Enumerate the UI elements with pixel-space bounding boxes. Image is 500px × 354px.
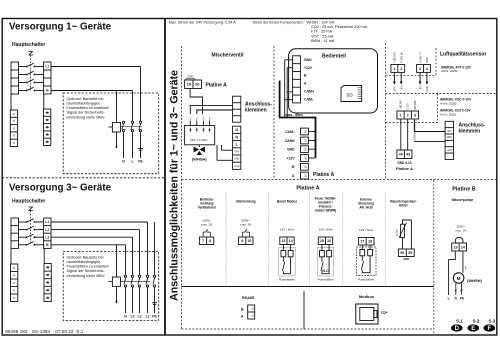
svg-text:GND: GND: [425, 86, 429, 92]
svg-text:max. 2A: max. 2A: [201, 223, 212, 227]
svg-text:GND: GND: [403, 257, 409, 261]
svg-text:ϑ KTY: ϑ KTY: [396, 229, 399, 236]
svg-text:55: 55: [408, 251, 412, 255]
svg-text:raumluftabhängigen: raumluftabhängigen: [67, 102, 101, 106]
svg-text:S.1: S.1: [456, 319, 463, 324]
svg-text:SS-1384: SS-1384: [32, 329, 51, 334]
svg-text:26: 26: [303, 130, 307, 134]
svg-text:S.3: S.3: [488, 319, 495, 324]
svg-text:10: 10: [247, 239, 251, 243]
svg-text:E: E: [471, 326, 475, 332]
svg-text:FTF : 25 mA: FTF : 25 mA: [311, 30, 333, 34]
svg-text:Platine B: Platine B: [452, 187, 476, 193]
svg-text:S.2: S.2: [472, 319, 479, 324]
svg-text:Bedienteil: Bedienteil: [322, 54, 347, 60]
svg-text:Anschlussmöglichkeiten für 1~: Anschlussmöglichkeiten für 1~ und 3~ Ger…: [169, 70, 181, 301]
svg-text:L1: L1: [45, 220, 49, 224]
svg-text:Max. Strom der 24V Versorgung:: Max. Strom der 24V Versorgung: 0,54 A: [169, 20, 237, 24]
svg-text:(WHSH): (WHSH): [192, 157, 208, 162]
svg-text:klemmen: klemmen: [459, 129, 481, 135]
svg-text:Boost Modus: Boost Modus: [277, 200, 297, 204]
svg-text:Platine A: Platine A: [206, 83, 228, 89]
svg-text:15: 15: [320, 239, 324, 243]
svg-text:56: 56: [400, 251, 404, 255]
svg-text:Mischerventil: Mischerventil: [212, 53, 245, 59]
svg-text:1: 1: [399, 113, 401, 117]
svg-text:+12V: +12V: [286, 156, 295, 160]
svg-text:Hauptschalter: Hauptschalter: [12, 42, 45, 48]
svg-text:fühler: fühler: [399, 204, 409, 208]
svg-text:WHSH : 104 mA: WHSH : 104 mA: [307, 20, 335, 24]
svg-text:13: 13: [453, 245, 457, 249]
svg-text:raumluftabhängigen: raumluftabhängigen: [67, 260, 101, 264]
svg-text:GND: GND: [187, 75, 193, 79]
svg-text:7: 7: [202, 239, 204, 243]
svg-text:2: 2: [407, 113, 409, 117]
svg-text:RS485: RS485: [242, 295, 255, 300]
svg-text:24V-: 24V-: [393, 86, 397, 91]
svg-text:Strom der Einzel-Komponenten:: Strom der Einzel-Komponenten:: [253, 20, 304, 24]
svg-text:L: L: [448, 296, 450, 300]
svg-text:8: 8: [209, 239, 211, 243]
svg-text:Störmeldung: Störmeldung: [236, 200, 256, 204]
svg-text:L: L: [465, 265, 467, 269]
svg-text:Ventilatoren: Ventilatoren: [198, 206, 216, 210]
svg-text:CANH: CANH: [304, 89, 314, 93]
svg-text:BWM : 41 mA: BWM : 41 mA: [311, 39, 335, 43]
svg-text:+12V: +12V: [304, 66, 313, 70]
svg-text:UB GND: UB GND: [415, 100, 417, 109]
svg-text:L1: L1: [146, 314, 150, 318]
svg-text:Versorgung 1~ Geräte: Versorgung 1~ Geräte: [9, 22, 112, 33]
svg-text:Signal der Sicherheits-: Signal der Sicherheits-: [67, 111, 106, 115]
svg-text:Feuerstätten zu erstellen!: Feuerstätten zu erstellen!: [67, 265, 110, 269]
svg-text:20: 20: [195, 82, 200, 87]
svg-text:0-10V: 0-10V: [408, 103, 410, 110]
svg-text:Feuerstätten zu erstellen!: Feuerstätten zu erstellen!: [67, 106, 110, 110]
svg-text:3: 3: [414, 113, 416, 117]
svg-text:S.1: S.1: [76, 329, 83, 334]
svg-text:Wasserpumpe: Wasserpumpe: [452, 198, 474, 202]
svg-text:einrichtung siehe MBV.: einrichtung siehe MBV.: [67, 274, 106, 278]
svg-text:Platine A: Platine A: [396, 166, 413, 171]
svg-text:Art.Nr. 20252: Art.Nr. 20252: [441, 69, 458, 73]
svg-text:GND: GND: [304, 58, 312, 62]
svg-text:GND: GND: [287, 148, 295, 152]
svg-text:N: N: [235, 128, 238, 132]
svg-text:+UB 24V: +UB 24V: [393, 52, 397, 63]
svg-text:N.C.: N.C.: [322, 269, 329, 273]
svg-text:SD: SD: [346, 93, 353, 98]
svg-text:16: 16: [327, 239, 331, 243]
svg-text:12V / 5mA: 12V / 5mA: [359, 228, 373, 232]
svg-text:D: D: [455, 326, 460, 332]
svg-text:Potentialfrei: Potentialfrei: [318, 278, 334, 282]
svg-text:Hauptschalter: Hauptschalter: [12, 199, 45, 205]
svg-text:28: 28: [303, 148, 307, 152]
svg-text:L1: L1: [45, 65, 49, 69]
svg-text:Optional: Bauseits bei: Optional: Bauseits bei: [67, 97, 104, 101]
svg-text:max. 2A: max. 2A: [240, 223, 251, 227]
svg-text:N: N: [235, 135, 238, 139]
svg-text:07.03.22: 07.03.22: [55, 329, 74, 334]
svg-text:GND: GND: [234, 158, 240, 161]
svg-text:19: 19: [187, 82, 192, 87]
svg-text:AN :AUS: AN :AUS: [359, 206, 372, 210]
svg-text:43: 43: [406, 153, 410, 157]
svg-text:Potentialfrei: Potentialfrei: [358, 278, 374, 282]
svg-text:Modbus: Modbus: [359, 294, 375, 299]
svg-text:klemmen: klemmen: [245, 108, 267, 114]
svg-text:13: 13: [281, 239, 285, 243]
svg-text:Signal der Sicherheits-: Signal der Sicherheits-: [67, 269, 106, 273]
svg-text:Art.Nr. 20253: Art.Nr. 20253: [440, 102, 457, 106]
svg-text:L3: L3: [131, 314, 135, 318]
svg-text:3: 3: [419, 67, 421, 71]
svg-text:24: 24: [303, 174, 307, 178]
svg-text:29: 29: [303, 156, 307, 160]
svg-text:CANL: CANL: [285, 130, 294, 134]
svg-text:12V / 5mA: 12V / 5mA: [318, 228, 332, 232]
svg-text:9: 9: [241, 239, 243, 243]
svg-text:TCP: TCP: [381, 311, 389, 315]
svg-text:CO2 : 25 mA, Peakstrom 200 mA: CO2 : 25 mA, Peakstrom 200 mA: [311, 25, 368, 29]
svg-text:0-10V 1k: 0-10V 1k: [400, 52, 404, 63]
svg-text:27: 27: [303, 139, 307, 143]
svg-text:max. 40m: max. 40m: [285, 112, 304, 117]
svg-text:24V~/ 0-10V~: 24V~/ 0-10V~: [190, 138, 209, 142]
svg-text:melder (BWM): melder (BWM): [315, 209, 336, 213]
svg-text:-24V: -24V: [234, 150, 239, 153]
svg-text:L2: L2: [138, 314, 142, 318]
svg-text:+12V: +12V: [447, 150, 453, 152]
svg-text:Optional: Bauseits bei: Optional: Bauseits bei: [67, 255, 104, 259]
svg-text:L2: L2: [45, 228, 49, 232]
svg-text:L3: L3: [45, 235, 49, 239]
svg-text:Art.Nr. 20251: Art.Nr. 20251: [440, 113, 457, 117]
svg-text:Platine A: Platine A: [296, 186, 319, 192]
svg-text:M: M: [457, 276, 461, 281]
svg-text:GND: GND: [447, 137, 452, 139]
svg-text:einrichtung siehe MBV.: einrichtung siehe MBV.: [67, 115, 106, 119]
svg-text:17: 17: [360, 240, 364, 244]
svg-text:+UB 24V: +UB 24V: [401, 100, 403, 110]
svg-text:12V / 5mA: 12V / 5mA: [280, 228, 294, 232]
svg-text:25: 25: [303, 165, 307, 169]
svg-text:Potentialfrei: Potentialfrei: [279, 278, 295, 282]
svg-text:L: L: [131, 160, 133, 164]
svg-text:CANL: CANL: [304, 97, 313, 101]
svg-text:CANH: CANH: [285, 139, 295, 143]
svg-text:18: 18: [368, 240, 372, 244]
svg-text:F: F: [487, 326, 491, 332]
svg-text:PE: PE: [460, 296, 464, 300]
svg-text:85499 182: 85499 182: [5, 329, 28, 334]
svg-text:max. 2A: max. 2A: [455, 229, 466, 233]
svg-text:+12V: +12V: [234, 165, 240, 168]
svg-text:GND: GND: [425, 57, 429, 63]
svg-text:Versorgung 3~ Geräte: Versorgung 3~ Geräte: [9, 183, 112, 194]
svg-text:1: 1: [393, 67, 395, 71]
svg-text:GND 0-10: GND 0-10: [397, 161, 412, 165]
svg-text:Luftqualitätssensor: Luftqualitätssensor: [440, 52, 486, 58]
svg-text:(WHSH): (WHSH): [467, 278, 483, 283]
svg-text:VOC : 25 mA: VOC : 25 mA: [311, 34, 334, 38]
svg-text:Platine A: Platine A: [313, 172, 335, 178]
svg-text:-24V: -24V: [447, 131, 452, 133]
svg-text:2: 2: [400, 67, 402, 71]
